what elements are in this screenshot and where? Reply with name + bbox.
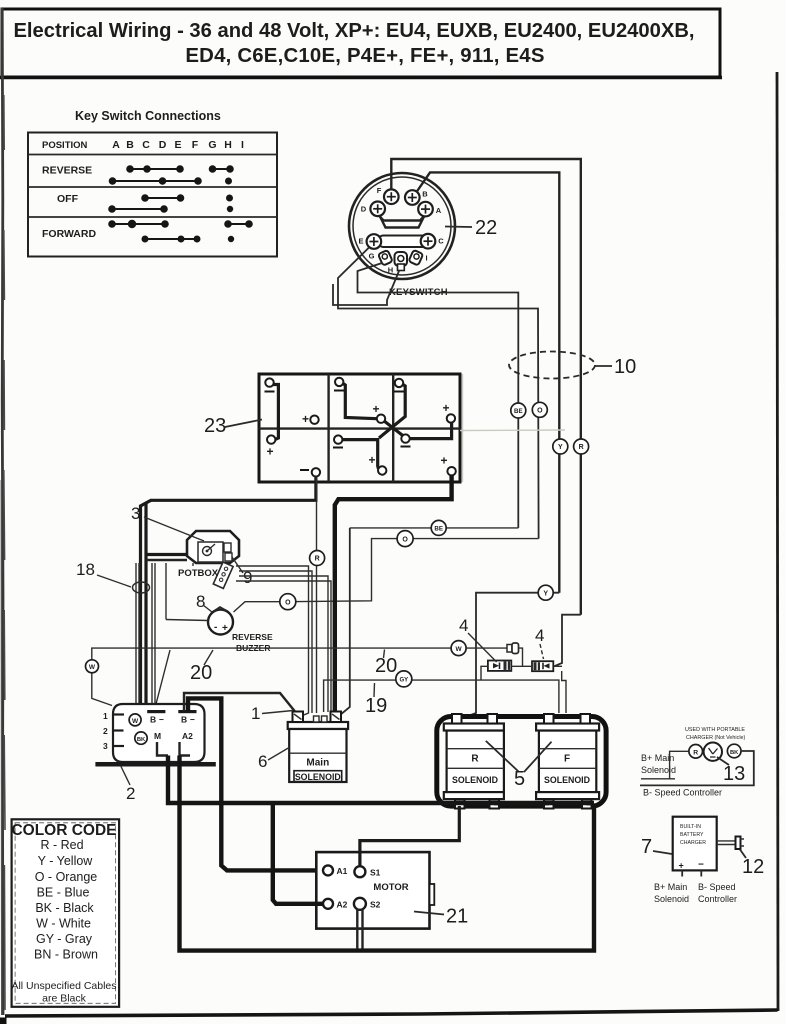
svg-text:POTBOX: POTBOX (178, 568, 219, 579)
svg-text:Y: Y (558, 444, 563, 451)
svg-text:W - White: W - White (36, 917, 91, 931)
svg-text:BN - Brown: BN - Brown (34, 948, 98, 962)
svg-text:20: 20 (375, 655, 397, 677)
svg-text:ED4, C6E,C10E, P4E+, FE+, 911,: ED4, C6E,C10E, P4E+, FE+, 911, E4S (185, 45, 544, 67)
svg-text:21: 21 (446, 906, 468, 928)
svg-text:22: 22 (475, 217, 497, 239)
svg-text:R: R (693, 749, 698, 756)
svg-text:R: R (471, 754, 479, 765)
svg-text:GY: GY (399, 677, 408, 683)
svg-text:Solenoid: Solenoid (654, 894, 689, 904)
svg-text:2: 2 (103, 726, 108, 736)
svg-text:A1: A1 (337, 866, 348, 876)
svg-text:19: 19 (365, 695, 387, 717)
svg-text:CHARGER: CHARGER (680, 840, 706, 846)
svg-text:+: + (442, 401, 449, 415)
svg-text:COLOR CODE: COLOR CODE (11, 822, 116, 839)
svg-text:10: 10 (614, 356, 636, 378)
svg-text:+: + (440, 454, 447, 468)
svg-text:CHARGER (Not Vehicle): CHARGER (Not Vehicle) (686, 735, 746, 741)
svg-text:R: R (579, 444, 584, 451)
svg-text:S2: S2 (370, 900, 381, 910)
svg-text:B+ Main: B+ Main (654, 882, 687, 892)
svg-text:18: 18 (76, 560, 95, 579)
svg-text:REVERSE: REVERSE (42, 165, 92, 177)
svg-text:20: 20 (190, 662, 212, 684)
svg-text:S1: S1 (370, 868, 381, 878)
svg-text:+: + (266, 445, 273, 459)
svg-text:BE - Blue: BE - Blue (37, 886, 90, 900)
svg-text:A2: A2 (182, 731, 193, 741)
svg-text:O: O (537, 408, 543, 415)
svg-text:+: + (679, 861, 684, 871)
svg-text:W: W (89, 664, 96, 671)
svg-text:BATTERY: BATTERY (680, 832, 704, 838)
svg-text:B: B (181, 715, 187, 725)
svg-text:E: E (174, 139, 181, 151)
svg-text:POSITION: POSITION (42, 140, 88, 151)
svg-text:FORWARD: FORWARD (42, 228, 96, 240)
svg-text:+: + (302, 412, 309, 426)
svg-text:3: 3 (131, 504, 140, 523)
svg-text:W: W (456, 646, 463, 653)
svg-text:All Unspecified Cables: All Unspecified Cables (11, 980, 116, 992)
svg-text:4: 4 (459, 616, 468, 635)
svg-text:−: − (190, 715, 195, 725)
svg-text:G: G (208, 139, 216, 151)
svg-text:Y - Yellow: Y - Yellow (38, 854, 94, 868)
svg-text:BUILT-IN: BUILT-IN (680, 824, 701, 830)
svg-text:BE: BE (434, 526, 443, 533)
svg-text:A: A (436, 206, 442, 215)
svg-text:R: R (315, 556, 320, 563)
svg-text:3: 3 (103, 741, 108, 751)
svg-text:BK - Black: BK - Black (35, 901, 94, 915)
svg-text:Y: Y (543, 590, 548, 597)
svg-text:1: 1 (251, 704, 260, 723)
svg-text:Electrical Wiring - 36 and 48: Electrical Wiring - 36 and 48 Volt, XP+:… (13, 20, 694, 42)
svg-text:SOLENOID: SOLENOID (452, 775, 498, 785)
svg-text:12: 12 (742, 856, 764, 878)
svg-text:7: 7 (641, 836, 652, 858)
svg-text:BE: BE (514, 408, 523, 415)
svg-text:2: 2 (126, 784, 135, 803)
svg-text:Solenoid: Solenoid (641, 765, 676, 775)
svg-text:I: I (241, 139, 244, 151)
svg-text:Main: Main (306, 758, 329, 769)
svg-text:1: 1 (103, 711, 108, 721)
svg-text:B- Speed: B- Speed (698, 882, 736, 892)
svg-text:F: F (192, 139, 199, 151)
svg-text:W: W (132, 718, 139, 725)
svg-text:O - Orange: O - Orange (35, 870, 98, 884)
svg-text:G: G (369, 252, 375, 261)
svg-text:BK: BK (137, 737, 146, 743)
svg-text:OFF: OFF (57, 193, 79, 205)
svg-text:H: H (388, 266, 393, 275)
svg-text:M: M (154, 731, 161, 741)
svg-text:A2: A2 (337, 900, 348, 910)
svg-text:C: C (438, 237, 444, 246)
svg-text:8: 8 (196, 592, 205, 611)
svg-text:E: E (358, 237, 363, 246)
svg-text:SOLENOID: SOLENOID (544, 775, 590, 785)
svg-text:13: 13 (723, 763, 745, 785)
svg-text:A: A (112, 139, 120, 151)
svg-text:−: − (159, 715, 164, 725)
svg-text:H: H (224, 139, 232, 151)
svg-text:B: B (422, 190, 428, 199)
svg-text:I: I (425, 254, 427, 263)
svg-text:Controller: Controller (698, 894, 737, 904)
svg-text:R - Red: R - Red (40, 838, 83, 852)
svg-text:+: + (368, 453, 375, 467)
svg-text:MOTOR: MOTOR (373, 882, 408, 893)
svg-text:23: 23 (204, 415, 226, 437)
svg-text:REVERSE: REVERSE (232, 632, 273, 642)
svg-text:C: C (142, 139, 150, 151)
svg-text:O: O (285, 599, 291, 606)
svg-text:D: D (159, 139, 167, 151)
svg-text:B- Speed Controller: B- Speed Controller (643, 788, 722, 798)
svg-text:GY - Gray: GY - Gray (36, 932, 93, 946)
svg-text:B: B (150, 715, 156, 725)
svg-text:−: − (698, 860, 704, 871)
svg-text:BK: BK (730, 750, 739, 756)
svg-text:F: F (564, 754, 570, 765)
svg-text:O: O (402, 536, 408, 543)
svg-text:F: F (377, 186, 382, 195)
svg-text:D: D (361, 205, 367, 214)
svg-text:B: B (126, 139, 134, 151)
svg-text:6: 6 (258, 752, 267, 771)
svg-text:4: 4 (535, 626, 544, 645)
svg-text:USED WITH PORTABLE: USED WITH PORTABLE (685, 727, 745, 733)
svg-text:SOLENOID: SOLENOID (295, 772, 341, 782)
svg-text:Key Switch Connections: Key Switch Connections (75, 109, 221, 123)
svg-text:+: + (372, 402, 379, 416)
svg-text:+: + (222, 623, 228, 634)
svg-text:are Black: are Black (42, 993, 87, 1005)
svg-text:-: - (214, 622, 217, 633)
